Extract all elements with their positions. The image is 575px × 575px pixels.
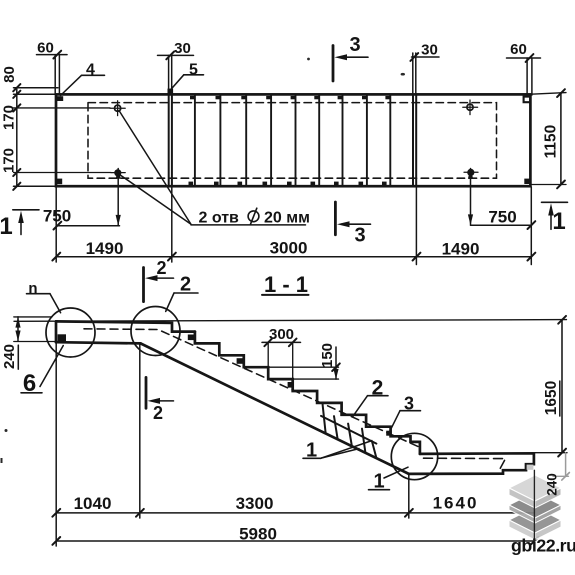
svg-text:1 - 1: 1 - 1 — [264, 272, 308, 297]
plan dashed inset rectangle — [88, 103, 497, 179]
svg-text:5: 5 — [189, 61, 198, 78]
detail circle 2 — [131, 307, 180, 356]
svg-text:240: 240 — [545, 473, 560, 496]
tick — [13, 84, 20, 91]
svg-text:3: 3 — [349, 34, 360, 56]
svg-text:1150: 1150 — [543, 125, 560, 159]
leader 2 holes — [119, 111, 191, 224]
plate 3 — [386, 431, 391, 436]
svg-text:170: 170 — [1, 148, 18, 173]
top landing outline — [56, 321, 195, 331]
section mark 2 lower — [145, 377, 148, 408]
svg-text:2: 2 — [180, 274, 191, 296]
dashed axis line — [84, 329, 420, 448]
svg-text:2: 2 — [156, 258, 166, 278]
gray notch (watermark overlap) — [527, 465, 534, 470]
svg-text:750: 750 — [43, 207, 71, 226]
svg-text:60: 60 — [510, 41, 527, 58]
extension line right end over logo — [533, 470, 535, 546]
bottom landing outline — [409, 453, 534, 474]
plan outline — [56, 94, 530, 186]
plan corner plate bottom-right — [524, 179, 531, 184]
svg-text:750: 750 — [488, 208, 516, 227]
dim line 1040/3300/1640 — [56, 512, 534, 514]
bottom dims extension lines — [55, 342, 57, 546]
svg-text:1650: 1650 — [543, 381, 560, 415]
svg-text:2: 2 — [153, 403, 163, 423]
plate 6 — [58, 334, 66, 343]
watermark logo slabs — [509, 475, 561, 540]
hole bottom-right — [467, 169, 474, 176]
svg-text:170: 170 — [1, 105, 18, 130]
plan corner plate bottom-left — [56, 179, 63, 185]
svg-text:30: 30 — [421, 42, 438, 59]
svg-text:3: 3 — [354, 225, 365, 247]
svg-text:1640: 1640 — [433, 494, 479, 513]
section mark 2 upper — [142, 268, 145, 302]
svg-text:3300: 3300 — [236, 494, 274, 513]
svg-text:20 мм: 20 мм — [264, 210, 310, 227]
hole top-right — [467, 104, 473, 110]
plan tread plate marks — [189, 96, 390, 185]
svg-text:1490: 1490 — [442, 240, 480, 259]
scan specks — [1, 58, 405, 463]
plate mark above edge (pos.5) — [168, 89, 174, 95]
hole bottom-left — [114, 169, 121, 176]
dim 1150 right — [531, 93, 566, 95]
svg-text:30: 30 — [174, 40, 191, 57]
band dividers — [323, 405, 326, 433]
svg-text:1: 1 — [552, 208, 565, 235]
plan step double line left — [168, 94, 170, 186]
svg-text:1: 1 — [0, 213, 13, 240]
top surface extension line — [14, 320, 567, 322]
svg-text:2 отв: 2 отв — [199, 210, 240, 227]
flight soffit — [141, 343, 409, 474]
svg-text:300: 300 — [269, 326, 294, 343]
detail circle bottom — [391, 433, 437, 479]
svg-text:80: 80 — [1, 66, 18, 83]
bottom chain of plan — [56, 256, 531, 258]
svg-text:3000: 3000 — [270, 239, 308, 258]
svg-text:1490: 1490 — [86, 239, 124, 258]
left dim chain line — [16, 88, 18, 187]
svg-text:240: 240 — [1, 344, 18, 369]
plan corner plate top-right (open) — [524, 97, 531, 103]
reinforcement band chord — [321, 416, 376, 444]
plan tread lines — [195, 94, 390, 186]
dim 240 gray right — [545, 453, 570, 496]
note 2 otv f20mm — [191, 224, 306, 226]
plan corner plate top-left — [57, 96, 63, 101]
svg-text:1040: 1040 — [74, 494, 112, 513]
steps outline — [195, 332, 420, 454]
svg-text:gbi22.ru: gbi22.ru — [511, 536, 575, 556]
step plate marks — [188, 335, 294, 388]
plan step double line right — [412, 94, 414, 186]
section mark 3 bottom — [334, 202, 337, 235]
dim 1650 right — [535, 452, 568, 454]
section mark 3 top — [332, 46, 335, 82]
svg-text:150: 150 — [319, 343, 336, 368]
detail circle n — [46, 308, 95, 357]
hole top-left — [115, 105, 121, 111]
svg-text:5980: 5980 — [239, 525, 277, 544]
dim line 5980 — [56, 540, 534, 542]
